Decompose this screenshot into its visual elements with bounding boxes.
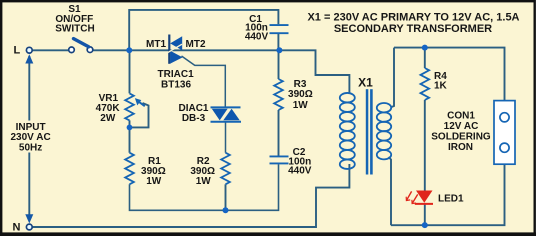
- svg-text:CON1: CON1: [447, 110, 475, 121]
- svg-text:SOLDERING: SOLDERING: [431, 131, 491, 142]
- resistor R4 1K: [421, 68, 448, 100]
- capacitor C1: [245, 14, 289, 43]
- connector CON1: [431, 101, 515, 165]
- svg-text:L: L: [14, 45, 21, 57]
- svg-text:TRIAC1: TRIAC1: [158, 69, 195, 80]
- terminal N: [26, 224, 32, 230]
- svg-text:SWITCH: SWITCH: [55, 24, 94, 35]
- wire: VR1 column from junction A: [129, 50, 131, 152]
- wire: R3 to C2 column: [278, 50, 280, 155]
- core: [366, 89, 369, 174]
- wire: input line L to N with arrows: [28, 56, 30, 218]
- svg-text:LED1: LED1: [438, 194, 464, 205]
- capacitor C2: [270, 147, 312, 177]
- svg-text:230V AC: 230V AC: [10, 132, 50, 143]
- svg-text:DB-3: DB-3: [182, 113, 206, 124]
- switch S1: [55, 4, 94, 52]
- wire: secondary bottom lead: [389, 157, 392, 225]
- svg-text:1W: 1W: [146, 176, 162, 187]
- wire: N rail to transformer primary bottom: [33, 164, 350, 227]
- junction R4 top: [422, 45, 428, 51]
- resistor R3 390ohm 1W: [274, 79, 313, 111]
- potentiometer VR1 470K 2W: [96, 93, 145, 124]
- diac DIAC1 DB-3: [178, 103, 241, 124]
- triac TRIAC1 BT136: [146, 35, 206, 91]
- resistor R1 390ohm 1W: [125, 153, 166, 188]
- transformer X1: [340, 76, 391, 175]
- svg-text:MT1: MT1: [146, 39, 166, 50]
- wire: VR1 wiper bracket: [130, 103, 149, 127]
- wire: top loop to C1: [129, 10, 278, 50]
- svg-text:2W: 2W: [100, 113, 116, 124]
- svg-text:50Hz: 50Hz: [19, 142, 42, 153]
- junction LED bottom: [422, 222, 428, 228]
- svg-text:1K: 1K: [434, 81, 448, 92]
- svg-text:390Ω: 390Ω: [288, 89, 313, 100]
- svg-text:X1 = 230V AC PRIMARY TO 12V AC: X1 = 230V AC PRIMARY TO 12V AC, 1.5A: [307, 11, 519, 23]
- wire: rail junction B to transformer primary top: [279, 50, 349, 93]
- svg-text:1W: 1W: [293, 100, 309, 111]
- wire: lower gate-return wire R1 to C2: [130, 164, 279, 210]
- wire: secondary bottom rail: [391, 164, 505, 225]
- svg-text:440V: 440V: [245, 32, 269, 43]
- wire: secondary top rail: [394, 48, 505, 101]
- junction A: [126, 47, 132, 53]
- wire: top rail L to junction B: [33, 49, 280, 51]
- secondary winding: [377, 103, 391, 112]
- svg-text:MT2: MT2: [186, 39, 206, 50]
- wire: secondary top lead: [391, 48, 394, 108]
- junction VR1 wiper: [127, 125, 133, 131]
- svg-text:X1: X1: [358, 76, 373, 90]
- primary winding: [340, 93, 355, 103]
- svg-text:12V AC: 12V AC: [444, 121, 479, 132]
- svg-text:BT136: BT136: [161, 80, 191, 91]
- input arrow up at L: [25, 54, 33, 63]
- terminal L: [26, 47, 32, 53]
- input arrow down at N: [25, 214, 33, 223]
- svg-text:440V: 440V: [288, 166, 312, 177]
- svg-text:SECONDARY TRANSFORMER: SECONDARY TRANSFORMER: [334, 23, 492, 35]
- wire: R4 / LED column: [424, 48, 426, 226]
- svg-text:1W: 1W: [196, 176, 212, 187]
- svg-text:N: N: [13, 222, 21, 234]
- svg-text:IRON: IRON: [448, 142, 473, 153]
- wire: triac gate to diac: [182, 56, 226, 153]
- resistor R2 390ohm 1W: [190, 153, 229, 188]
- junction lower wire / R2: [223, 207, 229, 213]
- LED LED1: [406, 191, 464, 205]
- junction B: [276, 47, 282, 53]
- wire: R2 bottom to lower wire: [225, 184, 227, 210]
